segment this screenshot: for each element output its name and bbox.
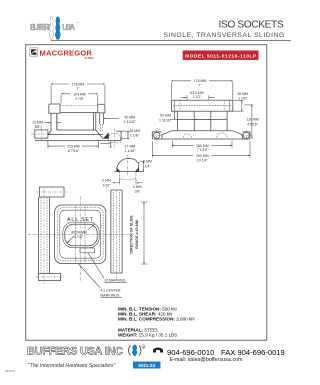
macgregor wordmark [40, 48, 95, 60]
front plate hidden top line [60, 105, 98, 107]
front dim 124MM line [61, 93, 98, 95]
plan top bar left [40, 187, 65, 197]
side flange tip left [152, 132, 162, 139]
front right chamfer [96, 130, 103, 139]
plan leader to ID MARKING [88, 253, 104, 278]
front dome hidden [108, 133, 120, 138]
plan bottom bar left [39, 274, 61, 281]
svg-text:1/16": 1/16" [102, 184, 111, 188]
plan plate outer [55, 205, 106, 264]
svg-text:ID MARKING: ID MARKING [105, 279, 126, 283]
footer code box [133, 362, 161, 369]
plan centerline horizontal [28, 233, 131, 235]
front dome centerline [113, 129, 115, 148]
svg-text:SINGLE, TRANSVERSAL SLIDING: SINGLE, TRANSVERSAL SLIDING [164, 32, 285, 39]
side hole right [241, 130, 252, 141]
svg-text:180 MM: 180 MM [196, 144, 209, 148]
detail base line [115, 171, 142, 173]
plan left rail [39, 190, 50, 285]
plan plate inner [60, 210, 101, 258]
svg-text:BUFFERS USA INC: BUFFERS USA INC [27, 346, 123, 358]
svg-text:RANGE ± 40 MM: RANGE ± 40 MM [135, 220, 139, 249]
svg-text:MIN. B.L. COMPRESSION: 2,000 k: MIN. B.L. COMPRESSION: 2,000 kN [118, 317, 195, 322]
svg-text:E-mail: sales@buffersusa.com: E-mail: sales@buffersusa.com [169, 357, 243, 363]
svg-text:178 MM: 178 MM [72, 82, 85, 86]
svg-text:™: ™ [76, 21, 79, 25]
svg-text:2 1/2": 2 1/2" [192, 95, 202, 99]
content frame [26, 45, 267, 341]
plan plate middle [57, 208, 103, 261]
plan slot hidden edges [75, 207, 77, 263]
side dim 178MM label [191, 78, 209, 83]
side dim 180MM [172, 141, 174, 148]
svg-text:GLOBAL: GLOBAL [85, 57, 95, 60]
header logo white twistlock cone [49, 17, 54, 40]
side base hidden domes [183, 133, 227, 138]
front dim 178MM extension lines [50, 85, 52, 103]
front dim 215MM line [47, 141, 49, 149]
front right leg [99, 113, 101, 124]
side top plate hidden line [173, 104, 231, 106]
svg-text:1/8": 1/8" [134, 190, 141, 194]
svg-text:BUFFERS: BUFFERS [30, 23, 53, 32]
svg-text:MACGREGOR: MACGREGOR [40, 48, 93, 57]
svg-text:4 7/8": 4 7/8" [74, 235, 84, 239]
side top plate [171, 100, 232, 111]
plan oval hole [65, 224, 97, 246]
svg-text:2 MM: 2 MM [102, 179, 111, 183]
svg-text:7": 7" [76, 87, 80, 91]
front base left end block [35, 130, 48, 138]
model number box [183, 51, 259, 60]
svg-text:4 5/16": 4 5/16" [247, 122, 259, 126]
plan leader to center markings [78, 264, 100, 288]
front dim 178MM label [69, 81, 87, 86]
footer registered mark [142, 345, 145, 348]
svg-text:6 MM: 6 MM [143, 160, 152, 164]
header logo outline text BUFFERS USA [30, 21, 79, 32]
svg-text:3 MM: 3 MM [133, 185, 142, 189]
svg-text:1 31/32": 1 31/32" [123, 120, 137, 124]
detail left bracket [113, 182, 119, 184]
side body webs [177, 111, 179, 131]
plan ID marking plate [80, 248, 95, 253]
side flange tip right [242, 132, 250, 139]
plan direction arrow [141, 202, 147, 264]
front plate left end block [49, 104, 60, 113]
svg-text:Ø124 MM: Ø124 MM [71, 230, 86, 234]
front dim 124MM extension lines [60, 95, 62, 104]
svg-text:8 7/16": 8 7/16" [68, 149, 80, 153]
svg-text:1 1/16": 1 1/16" [125, 149, 137, 153]
detail right bracket [140, 160, 145, 162]
side mid dim arrows [195, 118, 210, 120]
side hole left [152, 130, 163, 141]
front plate right end block [98, 104, 105, 113]
front ramp wedge [103, 132, 109, 138]
svg-text:R: R [143, 345, 145, 349]
side top plate end ticks [173, 100, 175, 111]
side dim 63.5MM line [186, 95, 188, 100]
footer logo blue cone [132, 345, 138, 356]
detail hidden lines below [120, 172, 137, 180]
front label 28MM [122, 130, 130, 132]
detail weld triangle right [135, 168, 139, 172]
front right curb [116, 131, 121, 140]
svg-text:50 MM: 50 MM [124, 116, 135, 120]
front dim 215MM label [65, 144, 82, 148]
svg-text:4 7/8": 4 7/8" [75, 97, 85, 101]
svg-text:904-696-0010: 904-696-0010 [167, 348, 214, 357]
header logo blue twistlock cone [55, 17, 61, 40]
front body [56, 114, 58, 130]
footer logo right paren [139, 346, 141, 356]
svg-text:1/4": 1/4" [144, 164, 151, 168]
plan centerline vertical [79, 197, 81, 282]
svg-text:5/8": 5/8" [34, 125, 41, 129]
side dim 178MM line [171, 80, 232, 82]
detail dome profile [117, 159, 139, 172]
svg-text:DIRECTION OF SLIDE: DIRECTION OF SLIDE [129, 215, 133, 254]
detail weld triangle left [117, 168, 121, 172]
front dim 124MM label [70, 91, 88, 96]
svg-text:MRK02: MRK02 [5, 369, 15, 373]
svg-text:10 MM: 10 MM [32, 120, 43, 124]
svg-text:260 MM: 260 MM [196, 154, 209, 158]
svg-text:4 x CENTER: 4 x CENTER [101, 289, 122, 293]
svg-text:1 31/32": 1 31/32" [159, 118, 173, 122]
svg-text:USA: USA [62, 23, 75, 32]
svg-text:7": 7" [198, 84, 202, 88]
svg-text:215 MM: 215 MM [67, 145, 80, 149]
svg-text:27 MM: 27 MM [125, 144, 136, 148]
svg-text:178 MM: 178 MM [194, 79, 207, 83]
detail bottom bracket [135, 179, 137, 185]
side body mid line [178, 118, 228, 120]
header rule [51, 39, 291, 41]
macgregor icon box [30, 48, 38, 56]
svg-text:WEIGHT: 15.9 Kg / 35.1 LBS: WEIGHT: 15.9 Kg / 35.1 LBS [118, 332, 177, 337]
svg-text:FAX 904-696-0019: FAX 904-696-0019 [221, 348, 285, 357]
front base left block centerlines [40, 126, 42, 142]
front label 27MM [110, 141, 112, 148]
front dim 178MM line [51, 83, 105, 85]
front left gusset [48, 130, 52, 135]
plan oval hole chamfer [63, 222, 99, 248]
svg-text:ISO SOCKETS: ISO SOCKETS [219, 20, 285, 31]
svg-text:1 1/8": 1 1/8" [130, 134, 140, 138]
svg-text:"The Intermodal Hardware Speci: "The Intermodal Hardware Specialists" [28, 363, 115, 369]
plan direction text [129, 215, 139, 254]
front left leg [50, 113, 52, 130]
svg-text:1 1/8": 1 1/8" [238, 96, 248, 100]
plan right rail top end [111, 189, 122, 191]
svg-text:5011-24: 5011-24 [138, 363, 155, 368]
svg-text:MODEL 5011-01216-110LP: MODEL 5011-01216-110LP [185, 53, 257, 59]
svg-text:110 MM: 110 MM [246, 117, 258, 121]
side dim 260MM [151, 141, 153, 158]
front base band [48, 134, 103, 136]
plan right rail [111, 190, 122, 280]
svg-text:50 MM: 50 MM [160, 113, 171, 117]
side base [162, 131, 242, 139]
footer logo left paren [129, 346, 131, 356]
footer phone icon [153, 348, 163, 353]
svg-text:28 MM: 28 MM [129, 129, 140, 133]
side dim 178MM extension lines [170, 82, 172, 100]
svg-text:10 1/4": 10 1/4" [197, 158, 209, 162]
svg-text:MARKINGS: MARKINGS [101, 294, 120, 298]
svg-text:7 1/16": 7 1/16" [197, 148, 209, 152]
front plate bottom line [60, 112, 98, 114]
svg-text:124 MM: 124 MM [73, 92, 86, 96]
